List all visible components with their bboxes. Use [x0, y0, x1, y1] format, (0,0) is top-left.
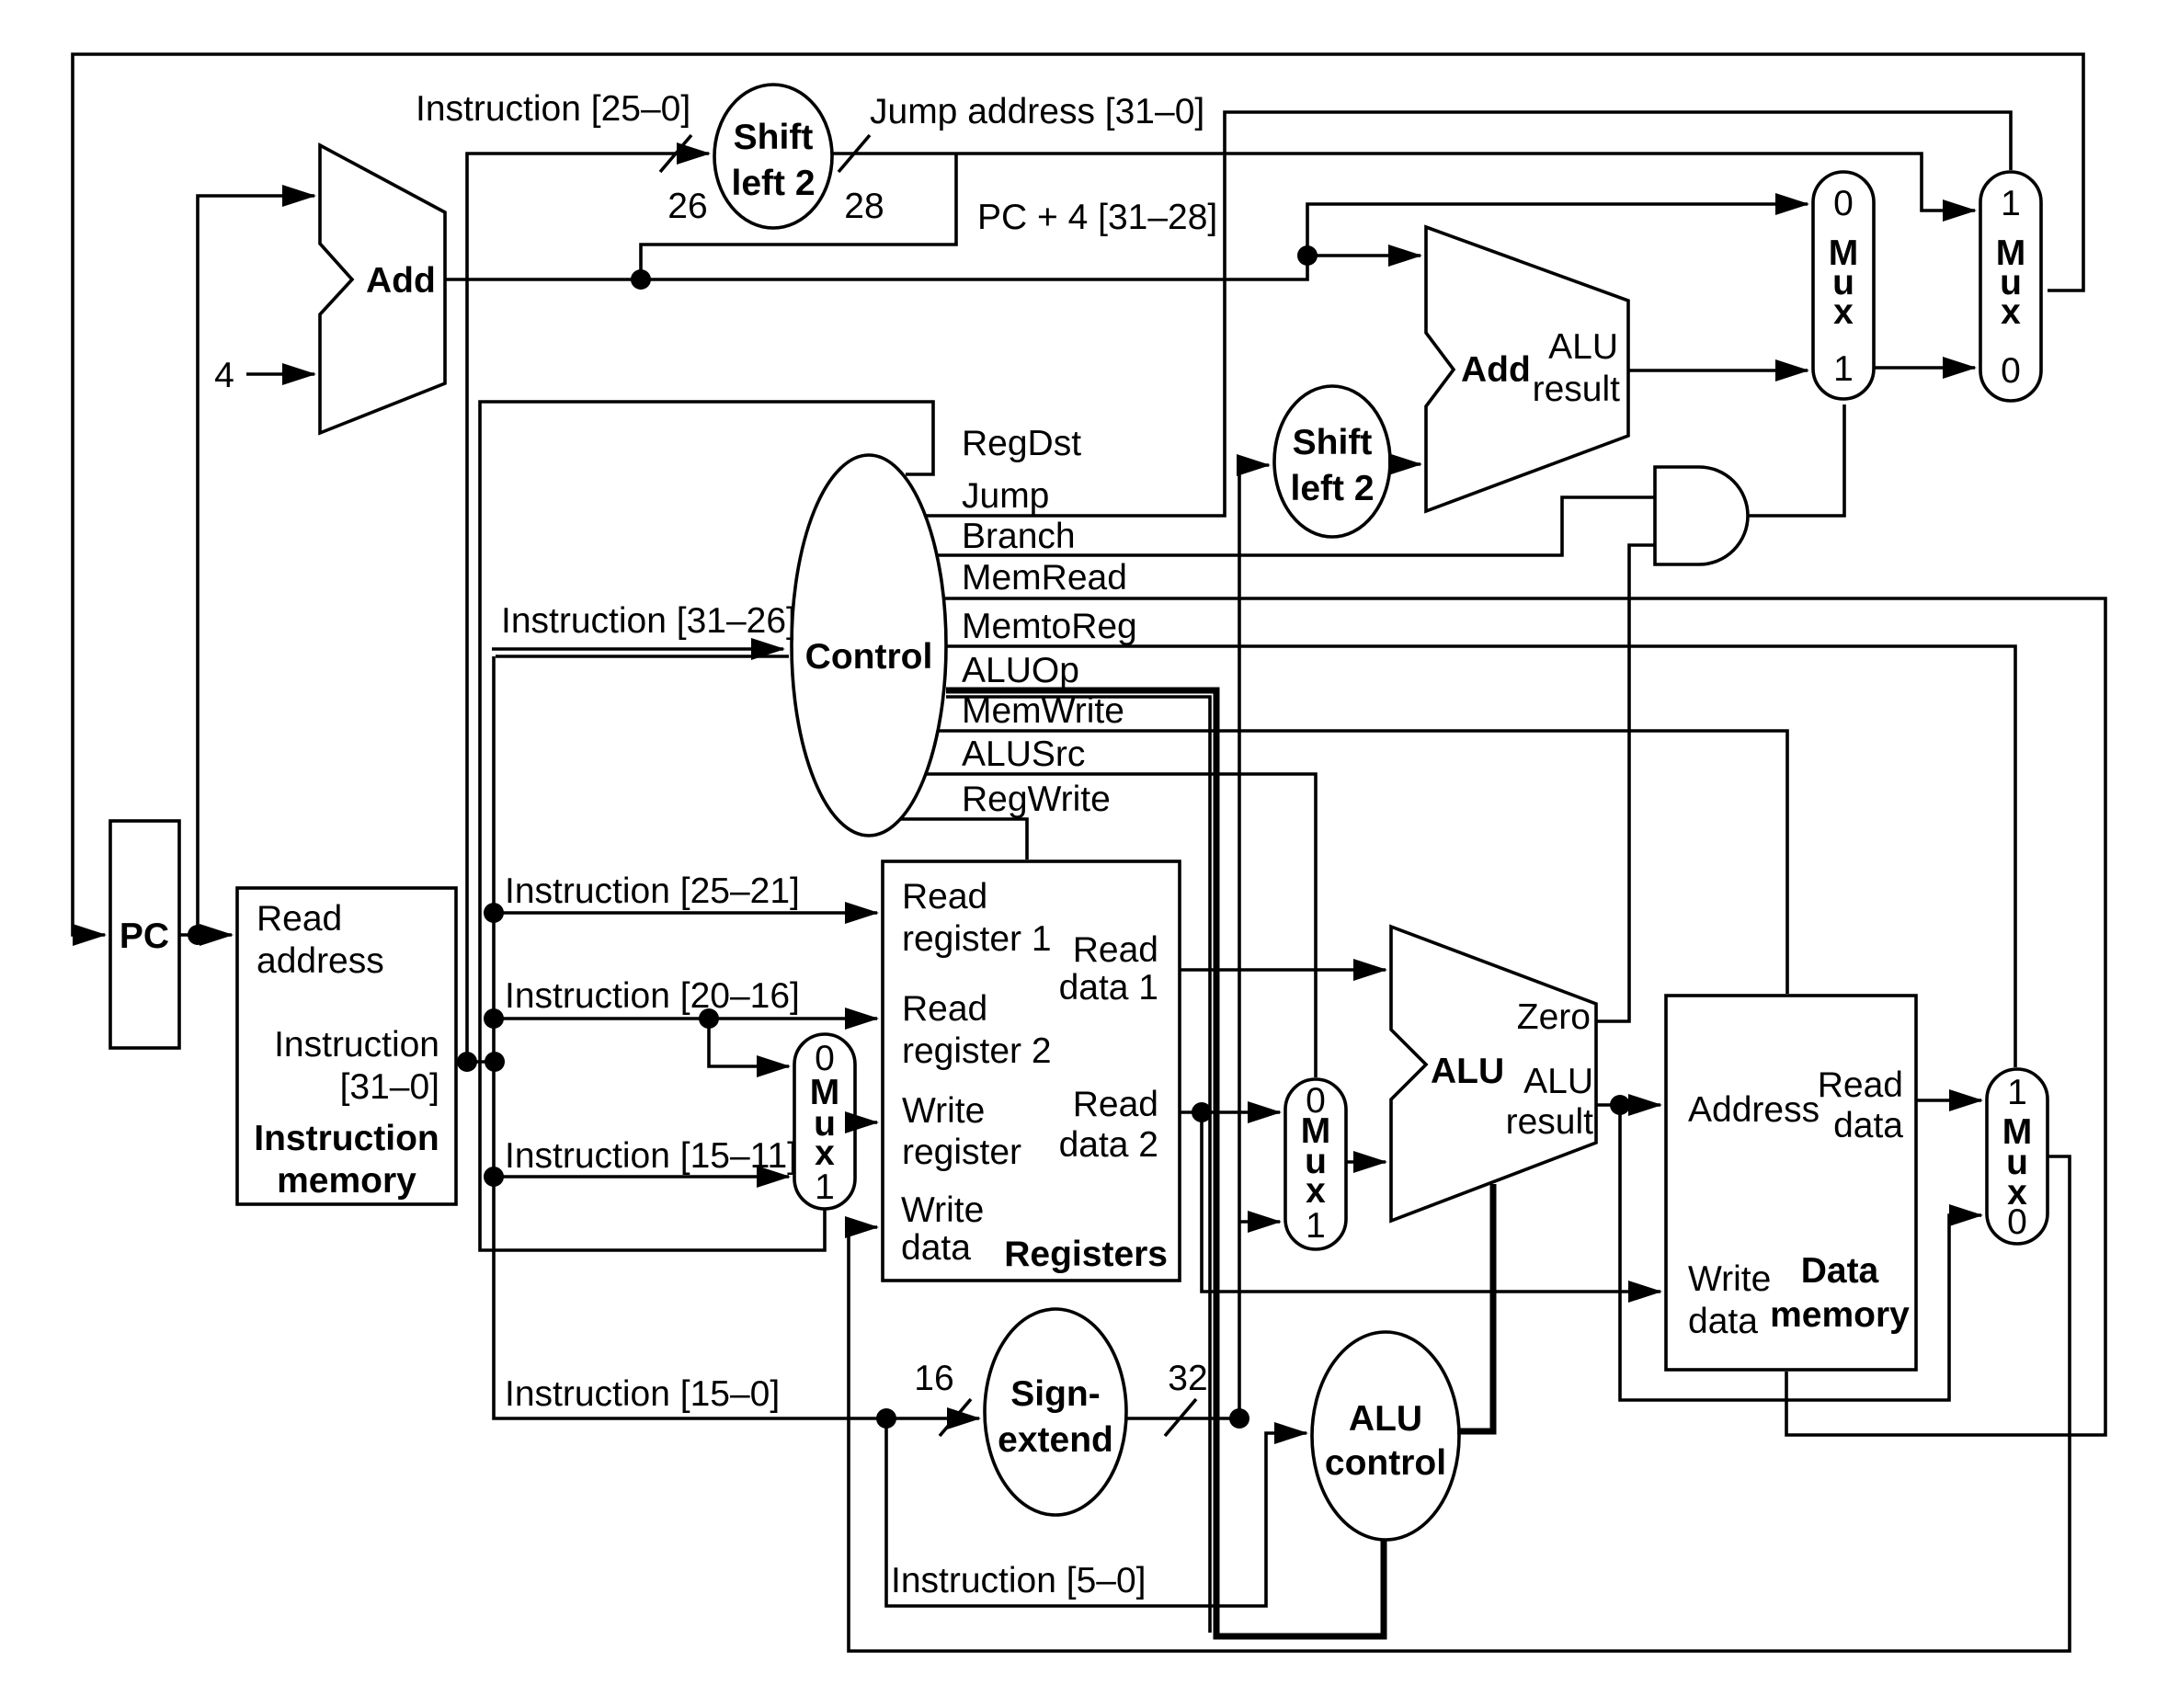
svg-text:data 2: data 2	[1059, 1125, 1158, 1165]
wire write-back from mux3 to Registers Write data	[849, 1156, 2070, 1651]
svg-text:0: 0	[2007, 1202, 2027, 1242]
svg-text:Branch: Branch	[962, 517, 1076, 556]
wire sign-extend output	[1126, 1417, 1239, 1420]
svg-text:0: 0	[1833, 184, 1854, 223]
wire Instruction[15-11] to mux0 input 1	[494, 1175, 789, 1179]
svg-text:Instruction [5–0]: Instruction [5–0]	[891, 1561, 1147, 1600]
svg-text:result: result	[1506, 1102, 1594, 1142]
alu ALU	[1391, 927, 1596, 1221]
node PC+4 branch-adder tap	[1297, 245, 1318, 266]
svg-text:x: x	[1306, 1171, 1326, 1211]
svg-text:Add: Add	[1461, 350, 1531, 390]
adder Add ALU result (branch)	[1426, 227, 1628, 511]
slash 26 bit-width mark	[660, 135, 691, 172]
svg-text:0: 0	[2001, 351, 2021, 391]
svg-text:data: data	[1688, 1302, 1758, 1341]
wire MemtoReg to mux3 select	[946, 646, 2015, 1067]
node tap to mux0 input 0	[699, 1008, 719, 1029]
svg-text:PC: PC	[120, 917, 169, 956]
wire Add output PC+4 to mux1 input 0	[445, 204, 1808, 279]
node read data 2 junction	[1192, 1102, 1212, 1122]
svg-text:16: 16	[914, 1359, 953, 1398]
wire Instruction[25-21] to Read register 1	[494, 911, 877, 915]
svg-text:[31–0]: [31–0]	[340, 1067, 439, 1107]
wire Instruction[25-0] to shift left 2	[467, 154, 709, 1062]
slash 16 bit-width mark	[940, 1399, 971, 1436]
svg-text:1: 1	[815, 1167, 835, 1207]
svg-text:Instruction: Instruction	[254, 1119, 439, 1158]
wire sign-extend result to ALU-src mux input 1	[1239, 1220, 1280, 1224]
svg-text:Instruction [20–16]: Instruction [20–16]	[505, 976, 800, 1016]
svg-text:ALU: ALU	[1548, 327, 1618, 367]
wire PC+4[31-28] up to jump address	[641, 154, 956, 279]
svg-text:MemWrite: MemWrite	[962, 691, 1124, 731]
svg-text:Instruction: Instruction	[274, 1025, 439, 1065]
wire ALUSrc to ALU-src mux select	[927, 774, 1316, 1077]
svg-text:x: x	[1833, 292, 1854, 332]
wire ALU-src mux output to ALU	[1346, 1160, 1386, 1164]
svg-text:Read: Read	[1073, 1085, 1158, 1124]
svg-text:Registers: Registers	[1004, 1235, 1168, 1274]
wire MemWrite to data memory	[939, 731, 1787, 994]
node sign-extend input junction	[876, 1408, 896, 1429]
slash 32 bit-width mark	[1165, 1399, 1196, 1436]
wire mux1 output to mux2 input 0	[1874, 366, 1975, 370]
node PC output junction	[188, 925, 208, 945]
svg-text:data 1: data 1	[1059, 968, 1158, 1008]
PC register	[110, 821, 179, 1048]
svg-text:Jump: Jump	[962, 476, 1049, 516]
svg-text:memory: memory	[277, 1161, 416, 1201]
svg-text:Read: Read	[902, 877, 987, 917]
wire jump address to mux2 input 1	[832, 154, 1975, 211]
svg-text:Address: Address	[1688, 1090, 1820, 1130]
wire Read data 2 to ALU-src mux input 0	[1180, 1110, 1280, 1114]
svg-text:RegWrite: RegWrite	[962, 780, 1111, 819]
svg-text:Instruction [15–0]: Instruction [15–0]	[505, 1374, 780, 1414]
svg-text:ALU: ALU	[1349, 1399, 1422, 1439]
node ALU result junction	[1610, 1095, 1630, 1115]
svg-text:Instruction [25–21]: Instruction [25–21]	[505, 871, 800, 911]
wire sign-extend result up to shift left 2 (branch)	[1239, 465, 1269, 1418]
wire ALU result to mux3 input 0	[1620, 1105, 1981, 1400]
svg-text:register 1: register 1	[902, 919, 1052, 959]
svg-text:32: 32	[1168, 1359, 1207, 1398]
svg-text:4: 4	[214, 356, 234, 395]
adder Add (PC+4)	[320, 145, 445, 433]
node tap 15-11	[484, 1167, 504, 1187]
svg-text:Shift: Shift	[1293, 423, 1373, 462]
svg-text:x: x	[2001, 292, 2021, 332]
wire Instruction[20-16] to Read register 2	[494, 1017, 877, 1020]
svg-text:left 2: left 2	[1290, 469, 1374, 508]
wire PC to instruction memory	[179, 933, 232, 937]
mux1 branch mux	[1813, 172, 1874, 399]
svg-text:Instruction [25–0]: Instruction [25–0]	[416, 89, 690, 129]
wire tap down into mux0 input 0	[709, 1019, 789, 1066]
svg-text:ALUSrc: ALUSrc	[962, 734, 1085, 774]
wire ALU control output to ALU select (thick)	[1457, 1184, 1493, 1431]
svg-text:Write: Write	[902, 1091, 985, 1131]
svg-text:data: data	[1833, 1106, 1903, 1145]
wire Instruction[31-26] into Control	[492, 647, 783, 651]
wire read data 2 down to data memory write data	[1202, 1112, 1660, 1292]
wire Instruction[5-0] to ALU control	[886, 1418, 1306, 1606]
mux3 mem-to-reg mux	[1987, 1069, 2048, 1244]
svg-text:ALUOp: ALUOp	[962, 651, 1079, 690]
svg-text:1: 1	[1833, 349, 1854, 389]
wire instruction bus vertical	[496, 655, 789, 658]
wire Branch to AND gate	[936, 497, 1655, 555]
memory Data memory	[1666, 996, 1916, 1370]
mux2 jump mux	[1980, 172, 2041, 401]
svg-text:Data: Data	[1801, 1251, 1879, 1291]
wire AND output to mux1 select	[1748, 404, 1844, 516]
wire branch target to mux1 input 1	[1628, 369, 1808, 372]
wire Read data 1 to ALU	[1180, 968, 1386, 972]
wire constant 4 into Add	[246, 372, 314, 376]
shifter Shift left 2 (branch)	[1274, 386, 1390, 537]
svg-text:register 2: register 2	[902, 1031, 1052, 1071]
wire mux0 output to Write register	[855, 1121, 877, 1124]
svg-text:Shift: Shift	[734, 118, 814, 157]
svg-text:memory: memory	[1770, 1295, 1910, 1335]
svg-text:data: data	[901, 1228, 971, 1268]
svg-text:PC + 4 [31–28]: PC + 4 [31–28]	[977, 198, 1217, 237]
svg-text:Control: Control	[805, 637, 933, 677]
wire ALU result to data memory Address	[1596, 1103, 1660, 1107]
svg-text:extend: extend	[998, 1420, 1113, 1460]
node tap 25-21	[484, 903, 504, 923]
wire Jump control to mux2 select	[926, 112, 2011, 516]
wire PC+4 to branch adder input	[1307, 254, 1420, 257]
registers Registers	[883, 861, 1180, 1281]
wire MemRead to data memory	[943, 598, 2105, 1435]
svg-text:left 2: left 2	[731, 164, 815, 203]
svg-text:Zero: Zero	[1517, 997, 1591, 1037]
svg-text:1: 1	[2007, 1073, 2027, 1112]
svg-text:1: 1	[1306, 1206, 1326, 1246]
svg-text:Read: Read	[257, 899, 342, 939]
svg-text:Jump address [31–0]: Jump address [31–0]	[870, 92, 1204, 131]
svg-text:Instruction [15–11]: Instruction [15–11]	[505, 1136, 797, 1176]
svg-text:register: register	[902, 1133, 1021, 1172]
shifter Shift left 2 (jump)	[714, 85, 832, 228]
svg-text:ALU: ALU	[1431, 1052, 1504, 1091]
svg-text:address: address	[257, 941, 384, 981]
mux ALU-src mux	[1285, 1079, 1346, 1249]
wire shift left 2 to branch adder	[1390, 462, 1420, 466]
control unit Control	[792, 455, 946, 836]
node sign-extend output junction	[1229, 1408, 1249, 1429]
svg-text:MemtoReg: MemtoReg	[962, 607, 1137, 646]
slash 28 bit-width mark	[839, 135, 870, 172]
wire Zero to AND gate	[1596, 545, 1655, 1021]
svg-text:Instruction [31–26]: Instruction [31–26]	[501, 601, 796, 641]
node PC+4 junction	[631, 269, 651, 290]
svg-text:1: 1	[2001, 184, 2021, 223]
svg-text:Sign-: Sign-	[1010, 1374, 1100, 1414]
wire PC value up to Add input	[198, 196, 314, 935]
wire ALUOp to ALU control (thick)	[946, 690, 1384, 1636]
wire Read data to mux3 input 1	[1916, 1099, 1981, 1102]
svg-text:26: 26	[667, 187, 707, 226]
alu control unit ALU control	[1312, 1332, 1459, 1540]
wire PC-loop border: mux2 output around top and left into PC	[73, 54, 2083, 935]
svg-text:Read: Read	[1073, 930, 1158, 970]
svg-text:Add: Add	[366, 261, 436, 301]
gate AND	[1655, 467, 1748, 564]
node tap 20-16	[484, 1008, 504, 1029]
node instruction bus junction b	[485, 1052, 505, 1072]
node instruction bus junction a	[457, 1052, 477, 1072]
svg-text:Read: Read	[902, 989, 987, 1029]
sign extender Sign-extend	[985, 1309, 1126, 1515]
memory Instruction memory	[237, 888, 456, 1204]
svg-text:Write: Write	[901, 1190, 984, 1230]
wire RegDst to write-register mux select	[480, 402, 933, 1250]
svg-text:RegDst: RegDst	[962, 424, 1081, 463]
svg-text:control: control	[1325, 1443, 1446, 1483]
wire RegWrite to Registers	[901, 819, 1027, 860]
svg-text:Read: Read	[1818, 1065, 1903, 1105]
svg-text:28: 28	[844, 187, 884, 226]
svg-text:Write: Write	[1688, 1259, 1771, 1299]
mux0 write-register mux	[794, 1034, 855, 1209]
svg-text:ALU: ALU	[1523, 1062, 1593, 1101]
wire Instruction [31-0] output	[456, 1060, 495, 1064]
svg-text:MemRead: MemRead	[962, 558, 1127, 598]
svg-text:result: result	[1533, 370, 1621, 409]
